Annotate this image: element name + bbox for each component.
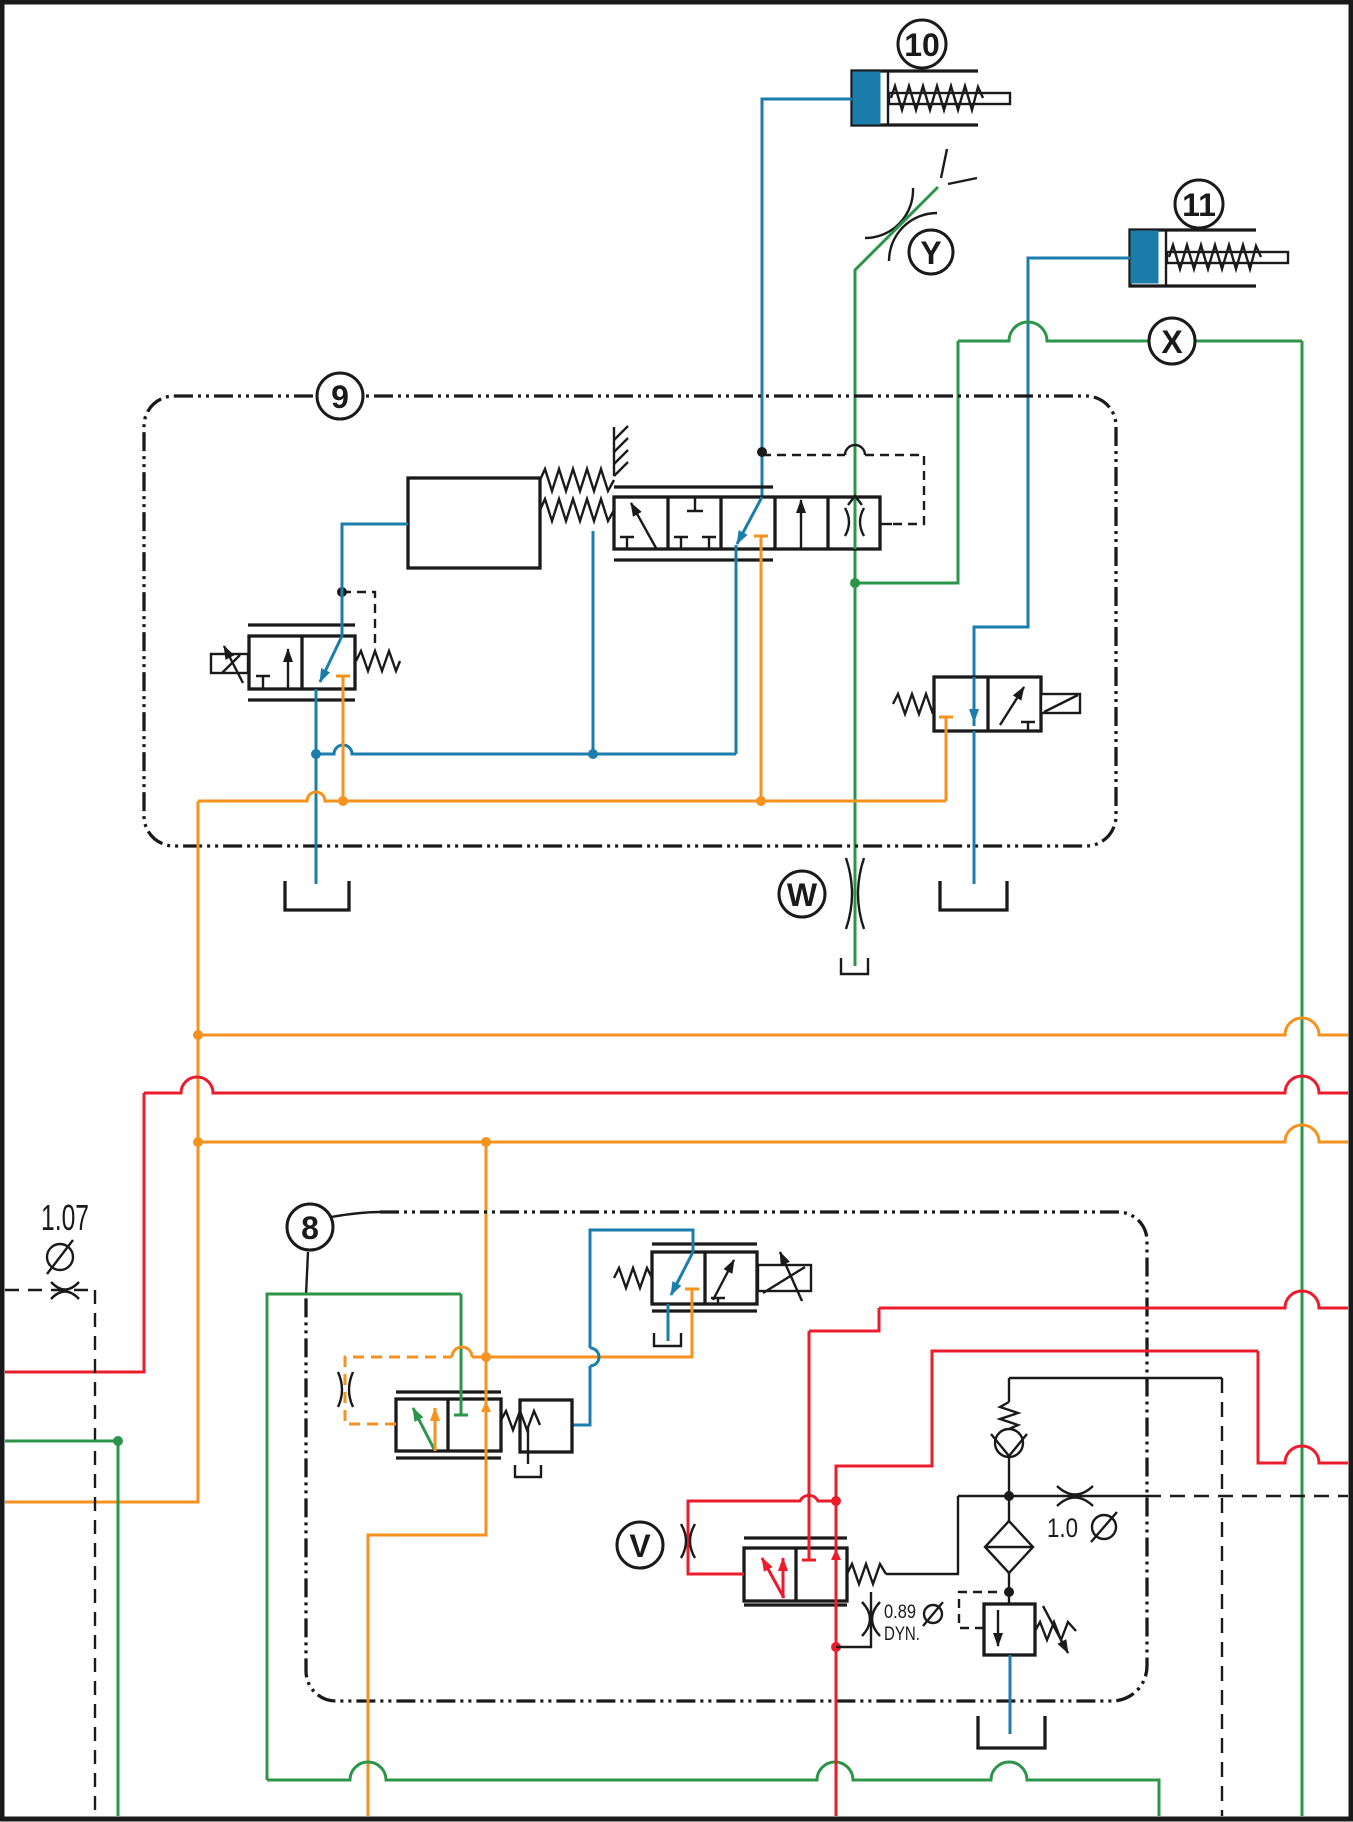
diameter symbol small	[923, 1602, 943, 1626]
spring of valve 8a	[501, 1411, 540, 1430]
dashed continuation to right border	[1146, 1495, 1348, 1497]
wire green from left edge	[5, 1441, 118, 1816]
box 9 boundary (dash-dot)	[144, 396, 1116, 846]
spring of valve V with link to check-valve line	[847, 1564, 886, 1584]
red feed D	[1258, 1351, 1348, 1463]
wire blue bus with hump over orange	[316, 745, 736, 754]
label circle 10	[898, 20, 946, 68]
cell 2 blocked ports	[674, 497, 716, 549]
node orange bus1 tap	[193, 1030, 203, 1040]
wire blue reducing valve drain	[1009, 1655, 1012, 1734]
restrictor Y on green line	[865, 149, 977, 261]
box 8 boundary (dash-dot)	[306, 1212, 1147, 1701]
wall anchor with hatching	[614, 426, 628, 476]
svg-text:10: 10	[904, 27, 940, 63]
svg-text:0.89: 0.89	[884, 1602, 916, 1623]
orange collector in box 9 (hump over blue)	[198, 792, 946, 801]
svg-text:W: W	[787, 877, 818, 913]
restrictor W on green line	[846, 858, 864, 929]
wire red to left edge	[5, 1093, 144, 1372]
node orange pilot junction	[481, 1352, 491, 1362]
svg-text:Y: Y	[920, 235, 941, 271]
blue arrow inside valve 9b	[973, 677, 976, 722]
label circle 9	[317, 373, 363, 419]
green supply loop in box 8	[267, 1294, 461, 1780]
node orange bus2 tap	[193, 1137, 203, 1147]
dashed gauge riser to bottom	[94, 1290, 96, 1816]
node orange junction a	[338, 796, 348, 806]
check valve top line to dashed riser	[1009, 1377, 1222, 1379]
pilot valve 8b (upper, 3/2)	[652, 1244, 757, 1311]
wire green X line with hump over blue	[958, 322, 1302, 341]
tank under valve 8b	[654, 1333, 681, 1346]
svg-text:1.07: 1.07	[41, 1197, 89, 1238]
label circle V	[617, 1522, 663, 1568]
gauge orifice 0.89 DYN	[836, 1592, 880, 1647]
pilot valve 9b (right, 2/2 solenoid)	[934, 677, 1041, 801]
black line with orifice 1.0	[958, 1495, 1146, 1497]
svg-text:11: 11	[1182, 187, 1216, 223]
arrowhead on cell 5 path	[848, 496, 862, 505]
red arrows in valve V	[762, 1558, 784, 1598]
adjustable spring of reducing valve	[1035, 1606, 1076, 1653]
node green junction	[113, 1436, 123, 1446]
orange pilot dashed loop of valve 8a	[345, 1357, 452, 1424]
blue flow arrow in valve 9a	[320, 636, 342, 682]
orange port T of valve 9a	[336, 676, 350, 801]
wire blue to cylinder 10	[762, 99, 852, 497]
cell 3 orange port T	[754, 536, 768, 801]
wire orange bus 1 (hump over green)	[198, 1018, 1348, 1035]
orifice on dashed gauge line	[51, 1282, 79, 1299]
restrictor on orange pilot	[338, 1372, 353, 1407]
actuator block U9	[408, 478, 540, 568]
orange line through valve 8a cell 2 to bottom	[368, 1357, 486, 1816]
green arrow in valve 8a	[413, 1408, 434, 1449]
label circle Y	[909, 230, 953, 274]
valve V (red, 2-pos)	[744, 1538, 847, 1605]
cylinder 11 (spring-return)	[1130, 230, 1288, 286]
node orange bus2 drop tap	[481, 1137, 491, 1147]
wire orange left drop out of box 9	[5, 801, 198, 1502]
label circle 8 with connectors	[287, 1204, 380, 1295]
diameter symbol mid	[1091, 1512, 1117, 1542]
node orange junction b	[756, 796, 766, 806]
svg-text:9: 9	[331, 379, 349, 415]
wire green W branch to tank	[854, 583, 857, 966]
solenoid (adjustable) of valve 8b	[758, 1252, 811, 1301]
manual override of valve 9a	[211, 646, 248, 683]
pilot line (dashed) from blue tap to valve right end	[762, 454, 845, 456]
wire blue feed to valve 8b (hump over orange)	[572, 1230, 693, 1425]
tank under valve 9a	[285, 881, 349, 910]
label circle X	[1149, 318, 1195, 364]
node blue junction left	[311, 749, 321, 759]
svg-text:DYN.: DYN.	[884, 1624, 920, 1645]
pilot stub right of valve	[880, 523, 892, 525]
node red junction low	[831, 1642, 841, 1652]
wire blue spring-side pilot drop	[592, 531, 595, 754]
node black junction lower	[1004, 1587, 1014, 1597]
label circle 11	[1175, 180, 1223, 228]
cylinder 10 (spring-return)	[852, 71, 1010, 125]
node red junction	[831, 1496, 841, 1506]
filter diamond	[985, 1496, 1033, 1604]
svg-text:8: 8	[301, 1210, 319, 1246]
spring of valve 9b	[893, 694, 934, 714]
blue flow arrow in valve 8b	[671, 1252, 693, 1295]
wire blue under valve cell 3	[735, 545, 738, 754]
valve top bar	[614, 485, 773, 488]
orange arrowhead in valve 8a cell 2	[481, 1401, 491, 1412]
wire green right riser down page	[1301, 341, 1304, 1816]
wire orange bus 2 (hump over green)	[198, 1125, 1348, 1142]
pilot valve 9a (left, 3/2)	[248, 625, 355, 700]
wire blue from actuator to valve 9a	[342, 524, 408, 636]
cell 1 arrow and blocked port	[620, 503, 656, 549]
pilot dashed tap of valve 9a	[342, 592, 375, 645]
dashed gauge line from left edge	[5, 1289, 95, 1291]
tank under valve 9b	[940, 881, 1007, 910]
reducing valve pilot dashed	[959, 1592, 1002, 1628]
wire blue valve 9b to tank	[973, 731, 976, 884]
node black pilot tap	[337, 587, 347, 597]
red pilot loop of valve V (hump over red riser)	[688, 1495, 836, 1574]
spring of valve 9a	[356, 651, 400, 671]
restrictor on valve V pilot	[681, 1524, 695, 1558]
node black junction upper	[1004, 1491, 1014, 1501]
wire red bus (humps over orange and green)	[144, 1076, 1348, 1093]
valve bottom bar	[614, 558, 773, 561]
svg-text:V: V	[629, 1528, 651, 1564]
solenoid of valve 9b	[1041, 694, 1080, 713]
svg-text:1.0: 1.0	[1047, 1513, 1078, 1543]
green port T in valve 8a cell 2	[454, 1294, 468, 1415]
red feed C	[836, 1351, 1258, 1501]
dashed riser right	[1221, 1378, 1223, 1816]
tank under valve 8a spring	[515, 1465, 541, 1477]
wire blue valve 8b to tank	[667, 1304, 670, 1341]
node junction on blue pilot tap	[757, 447, 767, 457]
wire green from Y down through box 9	[855, 187, 938, 583]
spring (upper) to wall	[540, 469, 614, 491]
pressure reducing valve	[984, 1604, 1035, 1655]
pilot box of valve 8a	[520, 1400, 572, 1452]
diameter symbol under 1.07	[47, 1240, 73, 1274]
wire blue valve 9a to tank	[315, 689, 318, 884]
tank under W	[841, 958, 868, 974]
orange port T of valve 8b	[486, 1289, 699, 1357]
wire green to X line	[855, 341, 958, 583]
orange arrow in valve 8a cell 1	[434, 1408, 437, 1451]
cell 4 up arrow	[800, 500, 802, 549]
svg-text:X: X	[1161, 324, 1183, 360]
wire green through cell 5	[854, 497, 857, 549]
valve 8a (lower-left, 2-pos)	[396, 1392, 501, 1458]
label circle W	[779, 871, 825, 917]
red port T in valve V	[802, 1331, 816, 1560]
red feed B to valve V port	[809, 1308, 879, 1331]
check valve with spring	[991, 1378, 1027, 1496]
node green junction	[850, 578, 860, 588]
spring (lower) to wall	[540, 499, 614, 521]
red arrowhead in valve V cell 2	[831, 1549, 841, 1560]
green bottom bus with humps	[267, 1762, 1159, 1816]
tank under reducing valve	[978, 1716, 1045, 1748]
spring of valve 8b	[614, 1268, 652, 1288]
cell 5 closed restriction	[845, 508, 864, 536]
main valve (6-chamber) body	[614, 497, 880, 549]
wire blue to cylinder 11	[974, 258, 1130, 726]
spring drain tail	[527, 1428, 529, 1464]
node blue junction mid	[588, 749, 598, 759]
wire orange drop to valve 8a pilot junction	[485, 1142, 488, 1357]
red feed A from top	[879, 1291, 1348, 1308]
cell 3 blue flow arrow	[737, 497, 762, 544]
red line through valve V right cell to bottom	[835, 1501, 838, 1816]
